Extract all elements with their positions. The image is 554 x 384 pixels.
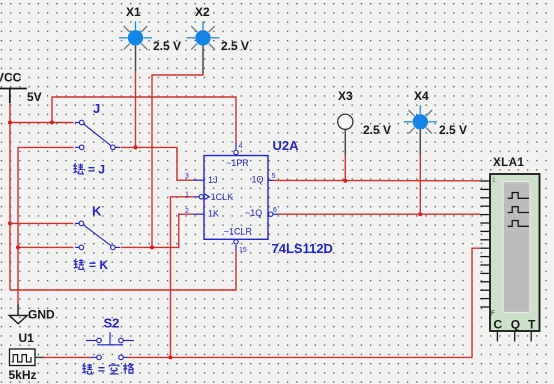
svg-text:S2: S2 (104, 316, 120, 331)
svg-text:X2: X2 (195, 5, 210, 19)
svg-text:5: 5 (272, 173, 276, 180)
pin6 inverted Q bubble (269, 212, 273, 216)
label key=K (74, 259, 85, 270)
wire: 1Q pin5 to logic analyzer (274, 179, 481, 181)
svg-text:~1PR: ~1PR (226, 158, 249, 168)
svg-text:5kHz: 5kHz (9, 368, 37, 382)
svg-text:Q: Q (511, 317, 520, 331)
lamp X1 (lit) (119, 21, 152, 71)
wire: GND vertical rail (17, 147, 19, 305)
svg-text:X1: X1 (126, 5, 141, 19)
wire: S2 out to logic analyzer (129, 248, 481, 357)
logic analyzer XLA1 (490, 174, 540, 331)
wire: J common to 1J pin3 (121, 147, 194, 180)
svg-text:T: T (528, 317, 536, 331)
waveform glyph 3 (508, 221, 529, 227)
label key=J (73, 163, 84, 174)
svg-text:X4: X4 (414, 89, 429, 103)
svg-text:6: 6 (273, 207, 277, 214)
wire: clock net U1 to S2 (44, 356, 92, 358)
svg-text:2: 2 (185, 208, 189, 215)
svg-text:3: 3 (185, 173, 189, 180)
svg-text:GND: GND (28, 308, 55, 322)
pushbutton S2 actuator (86, 332, 134, 345)
wire: 5V bottom run to ~1CLR pin15 (10, 250, 236, 291)
svg-text:1: 1 (185, 192, 189, 199)
svg-text:15: 15 (239, 247, 247, 254)
waveform glyph 1 (508, 193, 529, 199)
lamp X4 (lit) (404, 105, 437, 155)
junction 5V branch to pin4 (50, 121, 54, 125)
wire: X4 lamp lead to ~Q net (419, 154, 421, 214)
wire: 5V to K top throw (10, 222, 74, 224)
wire: K common to 1K pin2 (121, 214, 194, 247)
wire: 5V to J top throw (10, 122, 74, 124)
svg-text:1Q: 1Q (252, 175, 264, 185)
svg-text:U2A: U2A (273, 138, 300, 153)
junction on 5V at J throw (8, 121, 12, 125)
lamp X3 (off) (338, 114, 353, 155)
svg-text:=: = (98, 363, 105, 377)
wire: GND to K bottom throw (18, 246, 74, 248)
wire: VCC rail vertical 5V (9, 104, 11, 290)
svg-text:5V: 5V (27, 90, 42, 104)
switch K (75, 221, 120, 250)
wire: ~1Q pin6 to logic analyzer (279, 213, 481, 215)
wire: 5V branch to ~1PR pin4 (52, 97, 236, 144)
pin4 preset bubble (235, 143, 237, 150)
clock triangle (204, 194, 209, 200)
junction clock branch at S2 output (169, 355, 173, 359)
svg-text:4: 4 (239, 143, 243, 150)
wire: X2 lamp lead to K net (152, 72, 203, 247)
svg-text:1K: 1K (208, 208, 219, 218)
svg-text:2.5 V: 2.5 V (153, 39, 181, 53)
svg-text:J: J (93, 101, 100, 116)
waveform glyph 2 (508, 207, 529, 213)
svg-text:2.5 V: 2.5 V (439, 123, 467, 137)
XLA1 bottom pins C Q T (497, 331, 531, 342)
svg-text:1: 1 (492, 177, 496, 184)
svg-text:K: K (92, 204, 102, 219)
wire: X3 lamp lead to Q net (344, 154, 346, 181)
junction X2 lead on K net (150, 245, 154, 249)
junction X3 lead on Q net (343, 179, 347, 183)
svg-text:2.5 V: 2.5 V (221, 39, 249, 53)
pushbutton S2 contacts (92, 355, 129, 360)
svg-text:U1: U1 (19, 331, 35, 345)
pin1 clock bubble (194, 196, 199, 198)
VCC power symbol (0, 89, 27, 104)
svg-text:F: F (491, 310, 495, 317)
svg-text:= K: = K (89, 258, 108, 272)
switch J (75, 120, 120, 150)
JK flip-flop U2A body (194, 143, 273, 250)
label key=space (82, 363, 93, 374)
svg-text:1CLK: 1CLK (211, 192, 234, 202)
svg-text:C: C (494, 317, 503, 331)
ground symbol (9, 305, 27, 324)
svg-text:1J: 1J (208, 175, 218, 185)
lamp X2 (lit) (187, 21, 220, 73)
svg-text:~1Q: ~1Q (245, 208, 262, 218)
wire: clock branch up to 1CLK pin1 (171, 197, 195, 358)
wire: GND to J bottom throw (18, 146, 74, 148)
svg-text:= J: = J (88, 163, 105, 177)
junction 5V at K throw (8, 221, 12, 225)
clock source U1 (10, 349, 45, 366)
XLA1 input pins (480, 181, 490, 307)
wire: X1 lamp lead down to J net (135, 70, 137, 147)
svg-text:X3: X3 (338, 89, 353, 103)
svg-text:2.5 V: 2.5 V (363, 123, 391, 137)
pin15 clear bubble (235, 245, 237, 250)
svg-text:74LS112D: 74LS112D (272, 241, 333, 256)
svg-text:XLA1: XLA1 (493, 157, 525, 169)
svg-text:VCC: VCC (0, 71, 22, 85)
junction X4 lead on ~Q net (418, 212, 422, 216)
svg-text:~1CLR: ~1CLR (224, 226, 253, 236)
junction GND at K bottom throw (16, 245, 20, 249)
junction X1 lead on J net (134, 145, 138, 149)
